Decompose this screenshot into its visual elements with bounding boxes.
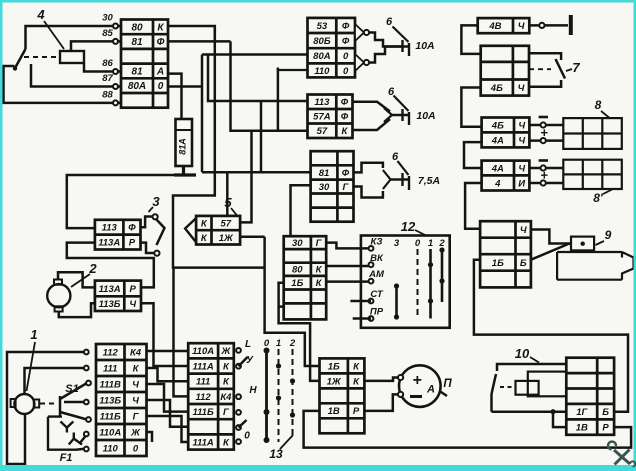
svg-text:А: А <box>156 67 164 78</box>
motor 2 upper brush wire <box>58 272 95 287</box>
column switch arm У <box>239 357 248 366</box>
wire lamp A plus <box>529 139 563 142</box>
svg-text:Ф: Ф <box>342 36 350 47</box>
svg-text:1В: 1В <box>328 406 340 417</box>
terminal circle t110 <box>84 447 89 452</box>
svg-text:+: + <box>540 168 548 183</box>
pin circle upper <box>364 30 369 35</box>
svg-text:4Б: 4Б <box>490 83 503 94</box>
fuse 2 feed upper wire <box>353 102 391 112</box>
svg-text:Ф: Ф <box>342 21 350 32</box>
svg-text:2: 2 <box>289 338 296 349</box>
svg-text:111В: 111В <box>100 379 121 390</box>
wire 1Ж cell to long vertical <box>240 236 265 239</box>
svg-text:Ч: Ч <box>520 225 527 236</box>
svg-text:4Б: 4Б <box>491 120 504 131</box>
fuse 2 arm <box>394 96 409 112</box>
motor 2 lower brush wire <box>59 303 95 317</box>
resistor bottom lead and bar <box>174 166 196 175</box>
ammeter А (device П) <box>399 365 441 407</box>
wire 80К row1 to node, jog down <box>168 26 215 41</box>
fuse 1 feed staircase upper <box>369 33 402 47</box>
svg-text:1Б: 1Б <box>328 361 340 372</box>
svg-text:И: И <box>518 178 525 189</box>
svg-text:Ч: Ч <box>132 395 139 406</box>
svg-text:80А: 80А <box>128 81 146 92</box>
svg-text:К4: К4 <box>220 392 232 403</box>
ignition terminal circle КЗ <box>369 246 374 251</box>
wire 1ВР row to ammeter minus <box>364 394 398 411</box>
relay 4 dashed actuator link <box>24 56 60 58</box>
thermal fuse F1 <box>48 414 76 450</box>
svg-text:Р: Р <box>602 423 609 434</box>
fuse 3 arm <box>398 161 409 175</box>
terminal circle t113Б <box>84 400 89 405</box>
terminal 87 open circle <box>113 84 118 89</box>
svg-text:Г: Г <box>342 182 349 193</box>
relay 4 coil to terminal 86 wire <box>84 63 121 72</box>
ignition position bar 3 <box>395 285 398 319</box>
fuse block connector F3 rows 81-30 <box>311 151 354 222</box>
svg-text:57: 57 <box>221 219 232 230</box>
terminal 30 open circle <box>113 24 118 29</box>
column switch terminal 0 <box>236 439 241 444</box>
S1 arm lower <box>60 412 87 420</box>
fuse 3 contact chevron <box>383 170 391 189</box>
relay 10 dashed link <box>500 386 514 388</box>
relay 10 frame <box>528 372 567 397</box>
wire motor1 bottom loop to row 112 <box>7 352 86 464</box>
wire lamp B minus <box>529 167 563 170</box>
svg-text:А: А <box>426 384 435 396</box>
svg-text:Р: Р <box>353 406 360 417</box>
horn relay box 9 <box>571 237 594 251</box>
СТ stub wire <box>350 300 371 303</box>
svg-text:0: 0 <box>343 51 349 62</box>
col0 dot a <box>264 348 270 354</box>
ignition terminal circle СТ <box>369 299 374 304</box>
bar2 dot a <box>439 247 444 252</box>
svg-text:1Г: 1Г <box>576 407 588 418</box>
lamp A minus circle <box>541 122 546 127</box>
F1 wire to row 110А <box>80 435 86 443</box>
branch x261 down to 81Ф line <box>260 101 263 172</box>
bar2 dot b <box>439 278 444 283</box>
svg-text:1: 1 <box>30 327 37 342</box>
antenna feed wire <box>529 24 568 27</box>
svg-text:7,5А: 7,5А <box>418 175 440 187</box>
column switch arm r6 <box>239 420 247 428</box>
svg-text:86: 86 <box>102 58 113 69</box>
svg-text:111Б: 111Б <box>193 407 214 418</box>
fuse block connector F1 rows 53-110 <box>308 18 356 78</box>
column switch terminal Н <box>236 394 241 399</box>
ammeter connector rows 1Б-1В <box>320 358 365 433</box>
svg-text:113: 113 <box>102 223 118 234</box>
fuse 6 (10А) contact bars 2 <box>403 109 410 125</box>
band wire 113АР item3 to item2 <box>67 243 154 288</box>
column switch position line 1 <box>278 349 280 442</box>
bar1 dot b <box>428 298 433 303</box>
pin circle lower <box>364 60 369 65</box>
wire 1Б down right side to relay 10 table <box>474 260 628 412</box>
link row110А short <box>147 432 153 442</box>
ignition switch 12 housing <box>361 236 450 328</box>
fuse 1 feed staircase lower <box>369 47 402 63</box>
svg-text:111: 111 <box>196 377 210 388</box>
svg-text:113Б: 113Б <box>99 299 121 310</box>
svg-text:111А: 111А <box>192 361 213 372</box>
S1 arm upper <box>60 383 87 399</box>
svg-text:К: К <box>341 126 348 137</box>
loop vertical down to 111К row <box>174 268 189 397</box>
svg-text:Ж: Ж <box>220 346 231 357</box>
connector of radio unit 7 <box>481 46 529 96</box>
terminal circle t111Б <box>86 417 91 422</box>
terminal circle t112 <box>84 350 89 355</box>
wire 57 cell up to 57К bus <box>240 131 251 223</box>
svg-text:112: 112 <box>103 347 119 358</box>
col0 dot b <box>264 409 270 415</box>
svg-text:Р: Р <box>129 238 136 249</box>
column switch terminal L <box>236 348 241 353</box>
svg-text:Ч: Ч <box>518 135 525 146</box>
col2 dot a <box>290 378 295 383</box>
svg-text:Ч: Ч <box>132 379 139 390</box>
horn body <box>557 252 633 280</box>
svg-text:9: 9 <box>605 228 612 242</box>
terminal 86 open circle <box>113 69 118 74</box>
wire 80К row to ignition ВК <box>326 265 371 268</box>
net 80А riser and bus to fuse table F1 <box>202 53 308 56</box>
watermark tools icon <box>608 442 635 467</box>
svg-text:10А: 10А <box>415 40 434 52</box>
relay 10 junction dot <box>550 409 555 414</box>
svg-text:Б: Б <box>602 407 609 418</box>
S1 fixed stub row 113Б <box>64 401 86 404</box>
lamp A plus circle <box>541 138 546 143</box>
svg-text:0: 0 <box>133 443 139 454</box>
wire 81Ф row2 bus to drop x230 <box>168 40 231 43</box>
svg-text:К: К <box>316 265 323 276</box>
svg-text:У: У <box>246 355 254 366</box>
svg-text:Ч: Ч <box>518 120 525 131</box>
svg-text:Ч: Ч <box>518 83 525 94</box>
svg-text:88: 88 <box>102 89 113 100</box>
column switch terminal У <box>236 364 241 369</box>
svg-text:6: 6 <box>386 16 393 28</box>
column switch position line 0 <box>265 349 268 442</box>
svg-text:Г: Г <box>223 407 230 418</box>
svg-text:110А: 110А <box>192 346 214 357</box>
svg-text:30: 30 <box>102 13 113 24</box>
svg-text:81: 81 <box>131 37 143 48</box>
switch 3 bottom terminal <box>154 251 159 256</box>
ammeter minus terminal <box>398 392 403 397</box>
svg-text:1: 1 <box>276 338 281 349</box>
svg-text:1Б: 1Б <box>492 258 504 269</box>
bottom bus 1ВР to relay 10 <box>304 411 631 448</box>
svg-text:Г: Г <box>316 238 323 249</box>
relay 4 switch arm <box>15 49 26 69</box>
lamp B plus circle <box>541 180 546 185</box>
col2 dot b <box>290 412 295 417</box>
svg-text:57А: 57А <box>313 112 331 123</box>
electric motor 2 <box>47 284 70 307</box>
wire 113Ф row to switch 3 top <box>141 217 153 228</box>
connector block X1 (relay 4 harness) <box>121 20 168 108</box>
switch 7 dashed link <box>529 68 551 70</box>
wire 4Б down to lamp unit A <box>461 88 481 127</box>
wire resistor bar to 113Ф rail <box>67 175 174 228</box>
svg-text:4: 4 <box>36 7 45 22</box>
svg-text:113А: 113А <box>99 284 121 295</box>
svg-text:80А: 80А <box>313 51 331 62</box>
lamp grid 8 upper <box>563 118 622 149</box>
svg-text:7: 7 <box>572 60 580 75</box>
connector 4БЧ/4АЧ (lamp A) <box>482 118 530 148</box>
svg-text:10А: 10А <box>416 110 435 122</box>
svg-text:81: 81 <box>131 67 143 78</box>
col0 dot c <box>264 437 270 443</box>
relay 4 arm pivot dot <box>13 66 17 70</box>
svg-text:3: 3 <box>394 238 400 249</box>
svg-text:1Ж: 1Ж <box>219 233 234 244</box>
branch 81Ф line down to connector 5 top <box>226 172 229 216</box>
bar3 dot top <box>394 283 399 288</box>
relay 10 bracket to 1ВР row <box>553 412 566 427</box>
wire lamp A minus <box>529 124 563 127</box>
svg-text:2: 2 <box>438 238 445 249</box>
fuse 2 contact chevron <box>384 108 392 122</box>
drop x230.5 to 57К bus <box>231 41 308 130</box>
svg-text:К: К <box>157 23 164 34</box>
svg-text:1В: 1В <box>576 423 588 434</box>
svg-text:Ф: Ф <box>157 37 165 48</box>
relay 4 coil feed wire from terminal 85 <box>71 41 121 51</box>
unit 7 right loop lower <box>529 80 561 87</box>
svg-text:30: 30 <box>319 182 330 193</box>
svg-text:F1: F1 <box>60 452 73 464</box>
svg-text:К: К <box>201 219 208 230</box>
svg-text:110: 110 <box>103 443 119 454</box>
svg-text:К: К <box>353 376 360 387</box>
svg-text:К: К <box>223 361 230 372</box>
link row111Б crossover <box>147 416 189 442</box>
column switch connector rows 110А-111А <box>188 343 234 449</box>
svg-text:6: 6 <box>392 151 399 163</box>
svg-text:85: 85 <box>102 28 113 39</box>
svg-text:Ф: Ф <box>128 223 136 234</box>
svg-text:К: К <box>316 278 323 289</box>
resistor R 81А <box>176 119 193 166</box>
svg-text:113А: 113А <box>98 238 120 249</box>
ammeter tail to П <box>440 391 448 396</box>
connector 5 chevron <box>185 218 196 242</box>
terminal circle t111В <box>86 381 91 386</box>
wire fuse3 30Г to middle table top <box>291 185 311 236</box>
wire 80А row5 to vertical <box>168 85 202 88</box>
connector horn circuit (Ч/1ББ) <box>480 221 531 287</box>
lamp grid 8' lower <box>563 160 622 189</box>
svg-text:Б: Б <box>520 258 527 269</box>
ammeter plus terminal <box>398 375 403 380</box>
connector pin arrow lower (rows 80А/110) <box>355 54 364 71</box>
svg-text:87: 87 <box>102 73 113 84</box>
S1 dashed link from motor1 <box>40 403 57 405</box>
wire 110 row to drop <box>278 68 308 70</box>
relay 10 coil <box>516 381 539 395</box>
connector of relay 10 (1ГБ/1ВР) <box>566 358 614 435</box>
column switch terminal r6 <box>236 425 241 430</box>
relay 4 fixed contact to terminal 87 <box>31 64 121 87</box>
relay 10 common wire <box>492 410 567 413</box>
wire 1БК row to ignition АМ <box>326 280 371 283</box>
wire 1БК row to lower 1Ж link <box>279 283 320 381</box>
link row111 crossover <box>147 368 189 381</box>
svg-text:0: 0 <box>415 238 421 249</box>
bar1 dot a <box>428 262 433 267</box>
switch 3 arm <box>156 219 165 245</box>
svg-text:К: К <box>353 361 360 372</box>
fuse 3 wire to contact <box>391 178 403 181</box>
svg-text:110: 110 <box>314 66 330 77</box>
svg-text:4А: 4А <box>491 163 504 174</box>
link row111В crossover <box>147 384 189 412</box>
fuse 3 feed lower wire <box>354 187 383 198</box>
fuse 6 (7,5А) contact bars <box>403 173 410 190</box>
ignition position bar 1 <box>429 249 432 319</box>
svg-text:5: 5 <box>224 195 232 210</box>
svg-text:Ф: Ф <box>341 112 349 123</box>
svg-text:110А: 110А <box>99 427 121 438</box>
fuse 6 (10А) contact bars <box>403 40 410 56</box>
wire motor1 top to row 111 <box>25 368 87 394</box>
svg-text:К: К <box>223 377 230 388</box>
svg-text:113: 113 <box>314 97 330 108</box>
connector 5 plug <box>196 216 240 245</box>
svg-text:111А: 111А <box>192 437 213 448</box>
svg-text:Ч: Ч <box>518 21 525 32</box>
svg-text:3: 3 <box>152 194 160 209</box>
svg-text:111Б: 111Б <box>100 411 121 422</box>
middle junction table 30Г-1БК <box>284 236 327 319</box>
svg-text:L: L <box>245 339 251 350</box>
wire to fuse3 81Ф row <box>202 171 311 174</box>
svg-text:8: 8 <box>595 98 602 112</box>
svg-text:12: 12 <box>401 219 416 234</box>
ignition terminal circle АМ <box>369 279 374 284</box>
col1 dot b <box>276 395 281 400</box>
svg-text:+: + <box>412 372 421 389</box>
wire 113АР row to switch 3 bottom <box>141 243 155 253</box>
wire pivot to terminal 88 (left loop) <box>4 66 122 103</box>
svg-text:57: 57 <box>317 126 328 137</box>
antenna <box>569 15 573 35</box>
svg-text:81А: 81А <box>178 138 188 155</box>
svg-text:К: К <box>133 363 140 374</box>
svg-text:0: 0 <box>158 81 164 92</box>
svg-text:Ч: Ч <box>518 163 525 174</box>
connector 4ВЧ (antenna feed) <box>478 18 530 33</box>
svg-text:0: 0 <box>244 431 250 442</box>
antenna feed inline circle <box>539 23 544 28</box>
wire 81А row4 to resistor top <box>168 74 182 119</box>
fuse 2 wire to contact <box>392 114 402 117</box>
connector of switch 3 (113Ф/113АР) <box>95 220 141 250</box>
svg-text:6: 6 <box>388 86 395 98</box>
minus sign lamp A <box>539 116 548 119</box>
electric motor 1 <box>14 394 34 414</box>
svg-text:4: 4 <box>494 178 501 189</box>
long drop to connector 5 loop <box>173 26 265 268</box>
terminal circle t111 <box>84 366 89 371</box>
svg-text:К: К <box>201 233 208 244</box>
wire 4В box to unit 7 row1 <box>461 25 480 54</box>
rail 4А unit A to unit B <box>464 142 482 168</box>
svg-text:53: 53 <box>317 21 328 32</box>
svg-text:Ж: Ж <box>130 427 141 438</box>
relay 4 coil <box>60 51 84 63</box>
ignition position bar 2 <box>441 249 444 302</box>
terminal 88 open circle <box>113 100 118 105</box>
svg-text:80: 80 <box>131 23 143 34</box>
fuse 6 arm <box>393 27 409 43</box>
ignition position bar 0 <box>417 249 419 319</box>
wire 30Г row to ignition КЗ <box>326 243 371 249</box>
wire lamp B plus <box>529 182 563 185</box>
bar3 dot bottom <box>394 314 399 319</box>
switch 7 arm <box>556 59 566 79</box>
drop 110 row to 57К bus <box>277 68 280 131</box>
column switch position line 2 <box>292 349 294 436</box>
svg-text:111: 111 <box>103 363 117 374</box>
ПР stub wire <box>353 317 371 320</box>
svg-text:80Б: 80Б <box>313 36 331 47</box>
lamp B minus circle <box>541 165 546 170</box>
long vertical 1Ж net down <box>265 237 320 366</box>
fuse 2 feed lower wire <box>353 119 391 130</box>
svg-text:Ф: Ф <box>342 168 350 179</box>
connector of motor 2 (113АР/113БЧ) <box>95 281 141 311</box>
rail 4 unit B to unit C <box>465 183 482 229</box>
svg-text:К4: К4 <box>130 347 142 358</box>
relay 10 top wire <box>497 364 566 371</box>
connector 4АЧ/4И (lamp B) <box>482 161 530 191</box>
svg-text:4А: 4А <box>491 135 504 146</box>
svg-text:1: 1 <box>428 238 433 249</box>
connector pin arrow upper (rows 53/80Б) <box>355 24 364 41</box>
terminal circle t110А <box>84 432 89 437</box>
wire terminal 30 to switch common <box>26 26 122 49</box>
svg-text:0: 0 <box>343 66 349 77</box>
unit 7 right loop upper <box>529 53 561 60</box>
svg-text:Р: Р <box>130 284 137 295</box>
svg-text:+: + <box>540 125 548 140</box>
minus sign lamp B <box>539 159 548 162</box>
F1 output wire to row 110 <box>76 449 86 450</box>
svg-text:Ф: Ф <box>341 97 349 108</box>
branch 113Ф feeder <box>208 55 308 102</box>
S1 pivot bar <box>59 396 62 414</box>
big connector (wiper switch) rows 112-110 <box>96 344 147 456</box>
svg-text:10: 10 <box>515 346 530 361</box>
svg-text:1Б: 1Б <box>291 278 303 289</box>
col1 dot a <box>276 363 281 368</box>
svg-text:4В: 4В <box>488 21 501 32</box>
svg-text:Ч: Ч <box>129 299 136 310</box>
svg-text:80: 80 <box>292 265 303 276</box>
